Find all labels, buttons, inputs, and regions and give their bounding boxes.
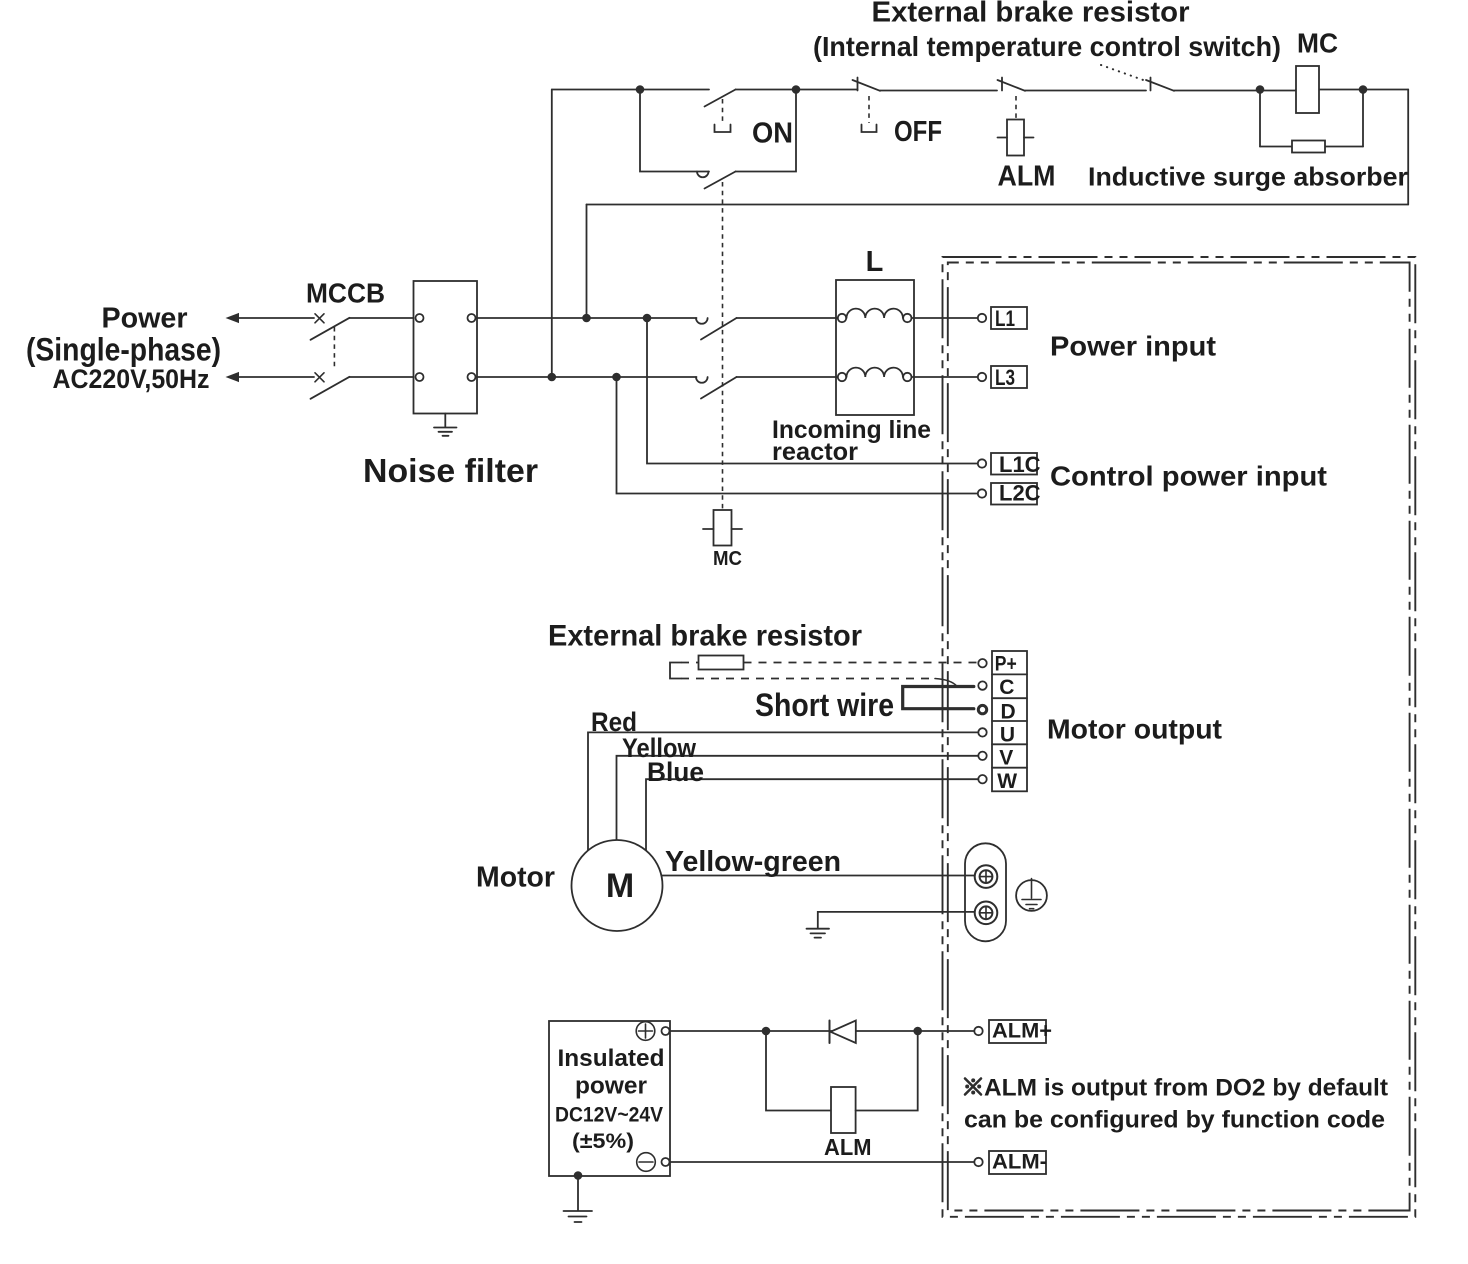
wire L1 to MCCB <box>238 317 314 319</box>
ground terminal stadium <box>965 843 1006 941</box>
wire control right vertical <box>1407 90 1409 205</box>
plus symbol <box>636 1022 655 1041</box>
ON actuator bracket <box>715 125 731 133</box>
arrow L1 power feed <box>226 313 240 323</box>
terminal box L1C <box>991 453 1037 475</box>
dotted leader to thermal switch <box>1101 65 1146 81</box>
wire left vertical drop x=551.8 <box>551 90 553 378</box>
terminal box ALM+ <box>989 1020 1046 1043</box>
ON actuator dashed stem <box>722 99 724 123</box>
surge absorber branch left vertical <box>1259 90 1261 147</box>
surge absorber branch right vertical <box>1362 90 1364 147</box>
terminal circle D (bold) <box>978 705 986 713</box>
svg-text:power: power <box>575 1073 647 1100</box>
ALM relay contact (NC) tick <box>1001 78 1003 91</box>
power supply ground dot <box>574 1171 583 1180</box>
wire MCCB to noise filter (L1) <box>350 317 414 319</box>
svg-text:Inductive surge absorber: Inductive surge absorber <box>1088 162 1408 192</box>
wire MCCB to noise filter (L3) <box>350 376 414 378</box>
brake resistor hook into C <box>935 679 974 687</box>
terminal box L1 <box>991 307 1027 329</box>
ALM contact blade <box>998 80 1026 91</box>
contact MC auxiliary blade <box>705 172 736 189</box>
MC linkage dashed vertical <box>722 182 724 510</box>
wire top rail between ON and OFF <box>736 89 858 91</box>
MCCB linkage dashed <box>333 327 335 370</box>
svg-text:DC12V~24V: DC12V~24V <box>555 1104 663 1127</box>
svg-text:External brake resistor: External brake resistor <box>548 620 862 653</box>
drive unit inner dashed border <box>948 263 1410 1211</box>
svg-text:MC: MC <box>1297 28 1338 59</box>
inductor L pole2 <box>838 373 846 381</box>
svg-text:ALM is output from DO2 by defa: ALM is output from DO2 by default <box>984 1075 1388 1102</box>
svg-text:can be configured by function: can be configured by function code <box>964 1107 1385 1134</box>
svg-text:Yellow-green: Yellow-green <box>665 846 841 878</box>
wire top rail between ALM and thermal switch <box>1025 90 1146 92</box>
svg-text:ALM: ALM <box>824 1134 872 1160</box>
incoming line reactor box <box>836 280 914 415</box>
noise filter box <box>414 281 478 414</box>
diode cathode bar <box>829 1021 831 1044</box>
svg-text:C: C <box>999 676 1014 699</box>
svg-text:MC: MC <box>713 548 742 570</box>
relay branch left vertical <box>766 1031 831 1111</box>
contact MC auxiliary hook <box>697 172 709 178</box>
wire W phase (blue) <box>646 779 978 850</box>
svg-text:ALM: ALM <box>998 161 1056 193</box>
svg-text:L2C: L2C <box>999 481 1041 506</box>
wire minus rail <box>670 1161 975 1163</box>
svg-text:ALM-: ALM- <box>992 1151 1047 1174</box>
surge absorber wires <box>1260 146 1363 148</box>
reference mark (custom) <box>965 1079 981 1095</box>
wire top rail segment left <box>552 89 709 91</box>
minus symbol <box>637 1153 656 1172</box>
svg-text:Control power input: Control power input <box>1050 461 1327 492</box>
wire ON branch right side <box>736 90 797 172</box>
relay coil ALM (bottom) <box>831 1087 856 1133</box>
power supply ground <box>564 1176 593 1222</box>
wire MC to reactor pole2 <box>737 376 838 378</box>
wire V phase (yellow) <box>617 756 979 840</box>
MCCB pole 2 blade <box>311 377 350 399</box>
wire through MC coil region <box>1296 89 1408 91</box>
svg-text:L1: L1 <box>995 306 1015 331</box>
switch OFF pushbutton (NC) tick <box>857 78 859 91</box>
terminal box L2C <box>991 483 1037 505</box>
svg-text:V: V <box>999 747 1013 770</box>
resistor external brake resistor <box>699 656 744 670</box>
wire control bottom rail <box>587 204 1409 206</box>
drive unit outer dashed border <box>943 257 1416 1217</box>
screw terminal upper <box>975 865 998 888</box>
svg-text:OFF: OFF <box>894 116 942 148</box>
junction dots plus rail <box>762 1027 771 1036</box>
svg-text:U: U <box>1000 723 1015 746</box>
contactor MC main contact pole2 hook <box>696 377 708 383</box>
brake resistor bracket <box>670 663 681 679</box>
svg-text:Power input: Power input <box>1050 331 1216 362</box>
wire noise filter to reactor (L1) <box>476 317 697 319</box>
terminal box ALM- <box>989 1151 1046 1174</box>
inductor L pole1 <box>838 314 846 322</box>
svg-text:AC220V,50Hz: AC220V,50Hz <box>53 364 210 394</box>
noise filter ground <box>434 414 457 436</box>
OFF actuator dashed stem <box>868 96 870 123</box>
brake resistor dashed wire bottom <box>681 678 935 680</box>
svg-text:Insulated: Insulated <box>558 1045 665 1072</box>
thermal switch (brake resistor temperature contact) tick <box>1150 78 1152 91</box>
svg-text:L1C: L1C <box>999 452 1041 477</box>
wire U phase (red) <box>588 732 978 850</box>
terminal circle W <box>978 775 986 783</box>
wire L2C drop and run <box>617 377 978 494</box>
svg-text:Noise filter: Noise filter <box>363 452 538 489</box>
relay coil ALM (control circuit) <box>1007 120 1024 156</box>
wire MC to reactor pole1 <box>737 317 838 319</box>
terminal circle P+ <box>978 659 986 667</box>
contactor MC main contact pole2 blade <box>701 377 737 399</box>
svg-text:(±5%): (±5%) <box>572 1130 634 1153</box>
MCCB pole 1 cross mark <box>315 314 324 323</box>
thermal switch blade <box>1146 80 1174 91</box>
svg-text:Power: Power <box>102 303 188 335</box>
svg-text:D: D <box>1001 701 1016 724</box>
svg-text:Motor: Motor <box>476 862 555 894</box>
diode triangle <box>831 1021 856 1044</box>
noise filter terminal circles <box>416 314 424 322</box>
svg-text:External brake resistor: External brake resistor <box>872 0 1190 29</box>
OFF actuator bracket <box>862 125 877 133</box>
svg-text:ON: ON <box>752 118 793 150</box>
wire L1C drop and run <box>647 318 978 464</box>
MCCB pole 2 cross mark <box>315 373 324 382</box>
ALM contact actuator dashed stem <box>1015 96 1017 119</box>
contactor MC main contact pole1 blade <box>701 318 737 340</box>
relay branch right side <box>856 1031 918 1111</box>
terminal circle L2C <box>978 489 986 497</box>
svg-text:Motor output: Motor output <box>1047 714 1222 745</box>
terminal circle C <box>978 681 986 689</box>
svg-text:(Internal temperature control: (Internal temperature control switch) <box>813 31 1281 62</box>
minus terminal circle <box>662 1158 670 1166</box>
svg-text:ALM+: ALM+ <box>992 1020 1052 1043</box>
terminal circle V <box>978 752 986 760</box>
wire noise filter to reactor (L3) <box>476 376 697 378</box>
arrow L3 power feed <box>226 372 240 382</box>
wire reactor to L1 terminal <box>912 317 978 319</box>
contactor coil MC <box>1296 66 1319 113</box>
wire reactor to L3 terminal <box>912 376 978 378</box>
terminal circle ALM- <box>974 1158 982 1166</box>
wire ON branch left vertical <box>640 90 709 172</box>
protective earth symbol <box>1016 880 1047 911</box>
terminal circle L3 <box>978 373 986 381</box>
switch ON pushbutton (NO) blade <box>705 90 736 107</box>
terminal circle U <box>978 728 986 736</box>
wire top rail to MC coil <box>1174 90 1296 92</box>
contactor coil MC (bottom) <box>714 510 732 546</box>
terminal circle L1C <box>978 459 986 467</box>
wire plus rail <box>670 1030 975 1032</box>
MCCB pole 1 blade <box>311 318 350 340</box>
ground (motor earth) <box>807 929 830 938</box>
terminal circle L1 <box>978 314 986 322</box>
motor output terminal block <box>992 651 1027 791</box>
wire yellow-green earth <box>662 875 976 877</box>
brake resistor dashed wire top <box>681 662 977 664</box>
svg-text:Short wire: Short wire <box>755 687 894 723</box>
wire top rail between OFF and ALM contact <box>880 90 997 92</box>
svg-text:M: M <box>606 867 634 905</box>
svg-text:L: L <box>866 246 884 278</box>
screw terminal lower <box>975 902 998 925</box>
wire second vertical x=586.5 <box>586 205 588 319</box>
svg-text:(Single-phase): (Single-phase) <box>26 332 221 368</box>
terminal box L3 <box>991 366 1027 388</box>
wire motor earth to ground <box>818 912 975 928</box>
short wire C-D jumper <box>903 687 974 709</box>
svg-text:P+: P+ <box>995 653 1017 676</box>
terminal circle ALM+ <box>974 1027 982 1035</box>
svg-text:W: W <box>997 770 1017 793</box>
switch OFF blade <box>853 80 881 91</box>
plus terminal circle <box>662 1027 670 1035</box>
wire L3 to MCCB <box>238 376 314 378</box>
svg-text:reactor: reactor <box>772 438 858 466</box>
svg-text:Blue: Blue <box>647 757 704 787</box>
svg-text:L3: L3 <box>995 365 1015 390</box>
contactor MC main contact pole1 hook <box>696 318 708 324</box>
resistor inductive surge absorber <box>1292 141 1325 153</box>
junction dots on power lines <box>582 314 591 323</box>
insulated power supply box <box>549 1021 670 1176</box>
motor M circle <box>572 840 663 931</box>
svg-text:MCCB: MCCB <box>306 278 385 309</box>
junction node dots top rail <box>636 85 645 94</box>
